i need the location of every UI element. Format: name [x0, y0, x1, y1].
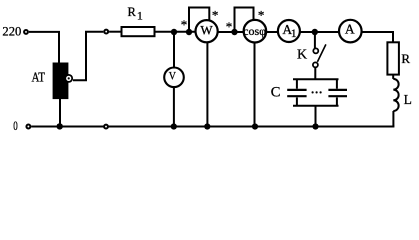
wire W voltage coil loop — [189, 8, 209, 33]
node junction AT on bottom rail — [57, 123, 63, 129]
svg-text:AT: AT — [32, 70, 46, 85]
node junction capacitor on bottom rail — [312, 123, 318, 129]
svg-text:K: K — [297, 48, 307, 63]
svg-text:cosφ: cosφ — [243, 24, 266, 38]
switch K lower contact — [313, 62, 318, 67]
capacitor C right bottom lead — [336, 97, 338, 105]
node junction cos-phi on bottom rail — [252, 123, 258, 129]
svg-text:L: L — [404, 92, 412, 107]
node junction cos-phi voltage coil — [231, 29, 237, 35]
wire W to bottom rail — [206, 42, 208, 127]
svg-text:1: 1 — [137, 9, 143, 23]
wire A1 to A — [299, 31, 339, 33]
ammeter A1 — [278, 20, 300, 42]
terminal 220 — [24, 30, 28, 34]
phase meter cos phi — [244, 20, 267, 43]
capacitor C left bottom lead — [296, 97, 298, 105]
wire W to cos-phi meter — [217, 31, 244, 33]
ellipsis dots between capacitors — [312, 91, 314, 93]
svg-text:R: R — [401, 51, 410, 66]
inductor L — [393, 79, 398, 111]
wire R1 to W — [155, 31, 197, 33]
svg-text:V: V — [169, 69, 176, 83]
bottom rail wire — [31, 126, 394, 128]
wire terminal to R1 — [109, 31, 122, 33]
capacitor bank top rail — [293, 78, 339, 80]
terminal 0 — [26, 125, 30, 129]
svg-text:220: 220 — [2, 25, 21, 39]
node junction V on bottom rail — [171, 123, 177, 129]
wire junction to switch — [314, 32, 316, 48]
resistor R body — [387, 42, 399, 74]
node junction W on bottom rail — [204, 123, 210, 129]
svg-text:*: * — [226, 19, 233, 34]
svg-text:*: * — [181, 17, 188, 32]
wattmeter W — [196, 20, 218, 42]
wire AT bottom to rail — [59, 99, 61, 127]
wire from 220 terminal to AT — [29, 32, 59, 63]
capacitor C right top lead — [336, 79, 338, 88]
switch K blade — [317, 44, 326, 62]
svg-text:A: A — [345, 22, 355, 37]
capacitor C right plates — [328, 90, 347, 96]
svg-text:C: C — [271, 85, 281, 101]
wire cos-phi to bottom rail — [254, 42, 256, 127]
terminal on bottom rail — [104, 125, 108, 129]
wire A to resistor R — [361, 32, 393, 42]
svg-text:0: 0 — [13, 119, 17, 133]
node junction to switch K — [312, 29, 318, 35]
wire cos-phi to A1 — [266, 31, 279, 33]
AT wiper tap — [65, 75, 72, 82]
wire from tap up to top line — [73, 32, 103, 80]
wire capacitor bank to bottom rail — [315, 106, 317, 127]
wire V to bottom rail — [173, 87, 175, 127]
svg-text:R: R — [128, 5, 137, 19]
autotransformer AT body — [53, 63, 69, 100]
wire cos-phi voltage coil loop — [235, 8, 254, 33]
capacitor bank bottom rail — [293, 105, 339, 107]
wire R to L — [392, 75, 394, 79]
wire L to bottom rail — [392, 111, 394, 127]
capacitor C left top lead — [296, 79, 298, 88]
switch K upper contact — [313, 48, 318, 53]
wire switch to capacitor bank — [314, 68, 316, 80]
svg-text:*: * — [212, 8, 219, 23]
resistor R1 body — [122, 27, 155, 36]
node junction W voltage coil — [186, 29, 192, 35]
svg-text:1: 1 — [291, 28, 297, 40]
ammeter A — [339, 20, 362, 43]
wire down to V — [173, 32, 175, 68]
terminal before R1 — [104, 30, 108, 34]
capacitor C left plates — [287, 89, 306, 91]
svg-text:W: W — [200, 22, 213, 37]
voltmeter V — [164, 68, 184, 88]
node junction to V — [171, 29, 177, 35]
